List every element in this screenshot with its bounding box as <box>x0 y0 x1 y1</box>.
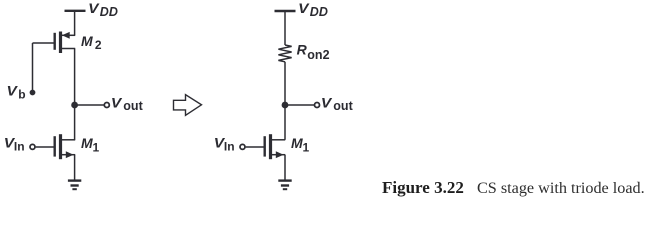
ground (right) <box>278 181 291 190</box>
caption Figure 3.22 <box>382 178 645 197</box>
terminal Vout open circle (right) <box>315 103 320 108</box>
svg-text:M: M <box>81 33 93 49</box>
wire M1 source to ground (right) <box>284 155 286 180</box>
wire M1 source to ground <box>74 155 76 180</box>
svg-text:on2: on2 <box>307 48 329 62</box>
svg-text:V: V <box>88 0 100 16</box>
transistor Q M1 (NMOS, right) <box>240 134 285 159</box>
svg-text:V: V <box>111 94 123 110</box>
svg-text:DD: DD <box>100 5 118 19</box>
node Vb dot <box>30 90 36 96</box>
svg-text:DD: DD <box>310 5 328 19</box>
wire output node to M1 drain (right) <box>284 105 286 140</box>
wire node to Vout terminal (left) <box>75 104 104 106</box>
node output junction dot (right) <box>282 102 289 109</box>
svg-text:Figure 3.22: Figure 3.22 <box>382 178 464 197</box>
wire VDD to M2 source <box>74 11 76 36</box>
terminal Vout open circle (left) <box>104 103 109 108</box>
wire node to Vout terminal (right) <box>285 104 314 106</box>
wire resistor to output node (right) <box>284 62 286 105</box>
wire Vb to M2 gate <box>32 43 34 93</box>
svg-text:R: R <box>297 42 308 58</box>
arrow (implies) between circuits <box>174 95 202 116</box>
VDD supply bar (left) <box>65 10 86 12</box>
svg-text:M: M <box>81 135 93 151</box>
svg-text:1: 1 <box>93 141 100 155</box>
resistor R Ron2 <box>278 45 291 62</box>
svg-text:V: V <box>298 0 310 16</box>
transistor Q M1 (NMOS, left) <box>30 134 75 159</box>
wire VDD to resistor <box>284 11 286 45</box>
svg-text:out: out <box>333 99 353 113</box>
node output junction dot (left) <box>71 102 78 109</box>
svg-text:M: M <box>291 135 303 151</box>
svg-text:2: 2 <box>95 38 102 52</box>
svg-text:out: out <box>123 99 143 113</box>
svg-text:CS stage with triode load.: CS stage with triode load. <box>477 179 645 197</box>
svg-text:1: 1 <box>303 141 310 155</box>
transistor Q M2 (PMOS) <box>33 32 76 54</box>
svg-text:In: In <box>14 139 25 153</box>
VDD supply bar (right) <box>275 10 296 12</box>
wire M2 drain to output node <box>74 49 76 106</box>
svg-text:V: V <box>7 83 19 99</box>
svg-text:V: V <box>321 94 333 110</box>
svg-text:b: b <box>18 87 25 101</box>
ground (left) <box>68 181 81 190</box>
svg-text:In: In <box>224 139 235 153</box>
wire output node to M1 drain <box>74 105 76 140</box>
